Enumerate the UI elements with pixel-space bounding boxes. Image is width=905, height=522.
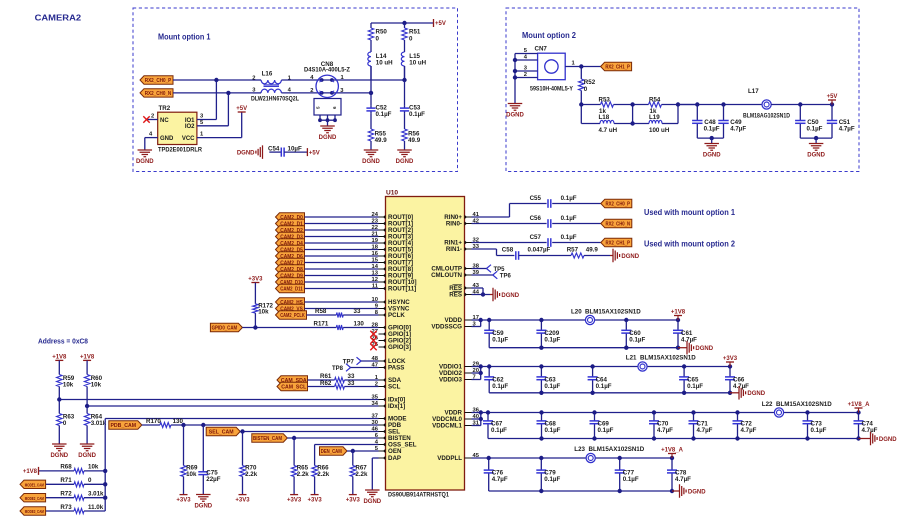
svg-text:DLW21HN670SQ2L: DLW21HN670SQ2L: [251, 96, 299, 103]
svg-text:L21: L21: [626, 355, 637, 362]
svg-text:DGND: DGND: [621, 254, 639, 260]
svg-text:DS90UB914ATRHSTQ1: DS90UB914ATRHSTQ1: [388, 492, 449, 499]
svg-text:BLM15AX102SN1D: BLM15AX102SN1D: [776, 401, 832, 408]
svg-text:DGND: DGND: [879, 437, 897, 443]
svg-text:4.7µF: 4.7µF: [839, 126, 855, 133]
svg-text:DGND: DGND: [319, 135, 337, 141]
svg-text:0: 0: [63, 420, 67, 427]
svg-text:VDDIO3: VDDIO3: [439, 377, 463, 384]
svg-text:+3V3: +3V3: [176, 498, 191, 504]
svg-text:C54: C54: [268, 146, 280, 153]
svg-text:NC: NC: [160, 118, 169, 124]
svg-text:DGND: DGND: [237, 150, 255, 156]
svg-text:ROUT[11]: ROUT[11]: [388, 286, 416, 293]
svg-text:2: 2: [151, 114, 154, 120]
svg-text:L19: L19: [649, 114, 660, 121]
svg-text:+1V8: +1V8: [671, 310, 686, 316]
svg-text:Address = 0xC8: Address = 0xC8: [38, 339, 88, 346]
svg-text:10k: 10k: [63, 382, 74, 389]
svg-text:MODE1_CAM: MODE1_CAM: [25, 482, 44, 487]
svg-text:+3V3: +3V3: [346, 498, 361, 504]
svg-text:33: 33: [348, 380, 355, 387]
svg-text:R73: R73: [60, 504, 72, 511]
svg-text:5: 5: [316, 106, 321, 109]
svg-text:CAMERA2: CAMERA2: [35, 12, 82, 22]
svg-text:RX2_CH0_P: RX2_CH0_P: [145, 78, 172, 84]
svg-text:0.1µF: 0.1µF: [492, 336, 508, 343]
svg-text:130: 130: [354, 321, 365, 328]
svg-text:DGND: DGND: [362, 159, 380, 165]
svg-text:L18: L18: [599, 114, 610, 121]
svg-text:49.9: 49.9: [375, 137, 388, 144]
svg-text:IDx[1]: IDx[1]: [388, 403, 405, 410]
svg-text:DGND: DGND: [688, 489, 706, 495]
svg-text:R71: R71: [60, 477, 72, 484]
svg-text:2.2k: 2.2k: [317, 471, 330, 478]
svg-text:0.1µF: 0.1µF: [807, 126, 823, 133]
svg-text:R68: R68: [60, 464, 72, 471]
svg-text:10k: 10k: [88, 464, 99, 471]
svg-text:2: 2: [524, 72, 527, 78]
svg-text:IO1: IO1: [185, 118, 195, 124]
svg-text:0.1µF: 0.1µF: [811, 427, 827, 434]
svg-text:DGND: DGND: [194, 504, 212, 510]
svg-text:0.1µF: 0.1µF: [623, 476, 639, 483]
svg-text:Used with mount option 2: Used with mount option 2: [644, 240, 736, 249]
svg-text:0.1µF: 0.1µF: [561, 215, 577, 222]
svg-text:3.01k: 3.01k: [91, 420, 107, 427]
svg-text:R58: R58: [315, 308, 327, 315]
svg-text:+5V: +5V: [435, 21, 446, 27]
svg-text:MODE3_CAM: MODE3_CAM: [25, 509, 44, 514]
svg-text:11.0k: 11.0k: [88, 504, 104, 511]
svg-text:49.9: 49.9: [586, 246, 599, 253]
svg-text:10k: 10k: [91, 382, 102, 389]
svg-text:DGND: DGND: [363, 499, 381, 505]
svg-text:DGND: DGND: [695, 346, 713, 352]
svg-text:+5V: +5V: [827, 94, 838, 100]
svg-text:R171: R171: [314, 321, 329, 328]
svg-text:L20: L20: [571, 309, 582, 316]
svg-text:L23: L23: [574, 446, 585, 453]
svg-text:DGND: DGND: [396, 159, 414, 165]
svg-text:RX2_CH0_N: RX2_CH0_N: [145, 91, 172, 97]
svg-text:U10: U10: [386, 190, 398, 197]
svg-text:L17: L17: [748, 88, 759, 95]
svg-text:100 uH: 100 uH: [649, 127, 670, 134]
svg-text:R52: R52: [584, 79, 596, 86]
svg-text:49.9: 49.9: [408, 137, 421, 144]
svg-text:C55: C55: [530, 195, 542, 202]
svg-text:+1V8_A: +1V8_A: [848, 402, 871, 408]
svg-text:DAP: DAP: [388, 455, 401, 462]
svg-text:10k: 10k: [186, 471, 197, 478]
svg-text:DGND: DGND: [506, 113, 524, 119]
svg-text:L22: L22: [762, 401, 773, 408]
svg-text:VDDCML1: VDDCML1: [432, 423, 462, 430]
svg-text:VCC: VCC: [182, 136, 195, 142]
svg-text:+1V8: +1V8: [52, 354, 67, 360]
svg-text:RX2_CH0_P: RX2_CH0_P: [606, 202, 631, 208]
svg-text:0: 0: [88, 477, 92, 484]
svg-text:3.01k: 3.01k: [88, 491, 104, 498]
svg-text:R57: R57: [567, 246, 579, 253]
svg-text:CAM_SCL: CAM_SCL: [281, 385, 307, 391]
svg-text:0.1µF: 0.1µF: [491, 427, 507, 434]
svg-text:DGND: DGND: [807, 153, 825, 159]
svg-text:0.1µF: 0.1µF: [629, 336, 645, 343]
svg-text:RIN0-: RIN0-: [446, 221, 462, 228]
svg-text:SEL_CAM: SEL_CAM: [209, 430, 234, 436]
svg-text:0.1µF: 0.1µF: [598, 427, 614, 434]
svg-text:R170: R170: [146, 418, 161, 425]
svg-text:0: 0: [376, 36, 380, 43]
svg-text:+5V: +5V: [309, 150, 320, 156]
svg-text:C56: C56: [530, 215, 542, 222]
svg-text:PASS: PASS: [388, 365, 404, 372]
svg-text:RES: RES: [449, 292, 462, 299]
svg-text:DGND: DGND: [747, 391, 765, 397]
svg-text:10µF: 10µF: [288, 146, 302, 153]
svg-text:4.7µF: 4.7µF: [657, 427, 673, 434]
svg-text:TPD2E001DRLR: TPD2E001DRLR: [158, 147, 202, 154]
svg-text:2.2k: 2.2k: [245, 471, 258, 478]
svg-text:TP7: TP7: [343, 359, 355, 365]
svg-text:RX2_CH1_P: RX2_CH1_P: [605, 65, 630, 71]
svg-text:R54: R54: [649, 96, 661, 103]
svg-text:PDB_CAM: PDB_CAM: [110, 423, 136, 429]
svg-text:MODE2_CAM: MODE2_CAM: [25, 496, 44, 501]
svg-text:4.7µF: 4.7µF: [697, 427, 713, 434]
svg-text:22µF: 22µF: [206, 476, 220, 483]
svg-text:DGND: DGND: [50, 453, 68, 459]
svg-text:+3V3: +3V3: [235, 498, 250, 504]
svg-text:+3V3: +3V3: [308, 498, 323, 504]
svg-text:BISTEN_CAM: BISTEN_CAM: [253, 436, 282, 442]
svg-text:2.2k: 2.2k: [355, 471, 368, 478]
svg-text:4.7 uH: 4.7 uH: [599, 127, 618, 134]
svg-text:DGND: DGND: [78, 453, 96, 459]
svg-text:RIN1-: RIN1-: [446, 246, 462, 253]
svg-text:4.7µF: 4.7µF: [675, 476, 691, 483]
svg-text:BLM15AX102SN1D: BLM15AX102SN1D: [585, 309, 641, 316]
svg-text:0.1µF: 0.1µF: [409, 111, 425, 118]
svg-text:0.1µF: 0.1µF: [544, 336, 560, 343]
svg-text:+3V3: +3V3: [248, 277, 263, 283]
svg-text:GPID0_CAM: GPID0_CAM: [212, 326, 238, 332]
svg-text:BLM15AX102SN1D: BLM15AX102SN1D: [589, 446, 645, 453]
svg-text:0.1µF: 0.1µF: [376, 111, 392, 118]
svg-text:CMLOUTN: CMLOUTN: [431, 272, 462, 279]
svg-text:4.7µF: 4.7µF: [681, 336, 697, 343]
svg-text:R53: R53: [599, 96, 611, 103]
svg-text:PCLK: PCLK: [388, 312, 405, 319]
svg-text:0.1µF: 0.1µF: [544, 383, 560, 390]
svg-text:6: 6: [332, 106, 337, 109]
svg-text:C58: C58: [502, 246, 514, 253]
svg-text:L16: L16: [262, 70, 273, 77]
svg-text:TP8: TP8: [332, 366, 344, 372]
svg-text:R50: R50: [376, 29, 388, 36]
svg-text:CAM2_D11: CAM2_D11: [280, 287, 303, 293]
svg-text:CN7: CN7: [535, 46, 548, 53]
svg-text:RX2_CH1_P: RX2_CH1_P: [606, 241, 631, 247]
svg-text:OEN: OEN: [388, 448, 402, 455]
svg-text:RX2_CH0_N: RX2_CH0_N: [606, 222, 631, 228]
svg-text:0.1µF: 0.1µF: [596, 383, 612, 390]
svg-text:VDDPLL: VDDPLL: [437, 455, 462, 462]
svg-text:TP6: TP6: [500, 274, 512, 280]
svg-text:2.2k: 2.2k: [297, 471, 310, 478]
svg-text:0.1µF: 0.1µF: [492, 383, 508, 390]
svg-text:VDDSSCG: VDDSSCG: [431, 324, 462, 331]
svg-text:DGND: DGND: [136, 159, 154, 165]
svg-text:Mount option 2: Mount option 2: [522, 31, 576, 40]
svg-text:TR2: TR2: [159, 105, 171, 112]
svg-text:BLM15AX102SN1D: BLM15AX102SN1D: [640, 355, 696, 362]
svg-text:C57: C57: [530, 234, 542, 241]
svg-text:DGND: DGND: [501, 293, 519, 299]
svg-text:0: 0: [584, 86, 588, 93]
svg-text:Mount option 1: Mount option 1: [158, 32, 211, 41]
svg-text:4.7µF: 4.7µF: [862, 427, 878, 434]
svg-text:33: 33: [354, 308, 361, 315]
svg-text:0.1µF: 0.1µF: [544, 476, 560, 483]
svg-text:R51: R51: [409, 29, 421, 36]
svg-text:DGND: DGND: [703, 153, 721, 159]
svg-text:0.047µF: 0.047µF: [528, 246, 551, 253]
svg-text:0.1µF: 0.1µF: [545, 427, 561, 434]
svg-text:0.1µF: 0.1µF: [561, 234, 577, 241]
svg-text:GND: GND: [160, 136, 174, 142]
svg-text:D4S10A-400L5-Z: D4S10A-400L5-Z: [304, 67, 350, 74]
svg-text:+1V8: +1V8: [23, 469, 38, 475]
svg-text:+3V3: +3V3: [723, 356, 738, 362]
svg-text:0.1µF: 0.1µF: [704, 126, 720, 133]
svg-text:IO2: IO2: [185, 124, 195, 130]
svg-text:SCL: SCL: [388, 384, 401, 391]
svg-text:+3V3: +3V3: [287, 498, 302, 504]
svg-text:BLM18AG102SN1D: BLM18AG102SN1D: [743, 113, 790, 120]
svg-text:CAM2_PCLK: CAM2_PCLK: [280, 313, 305, 319]
svg-text:+1V8: +1V8: [80, 354, 95, 360]
svg-text:4.7µF: 4.7µF: [492, 476, 508, 483]
svg-text:DEN_CAM: DEN_CAM: [321, 449, 342, 455]
svg-text:4.7µF: 4.7µF: [730, 126, 746, 133]
svg-text:4.7µF: 4.7µF: [741, 427, 757, 434]
svg-text:R72: R72: [60, 491, 72, 498]
svg-text:+5V: +5V: [236, 106, 247, 112]
svg-text:59S10H-40ML5-Y: 59S10H-40ML5-Y: [530, 86, 574, 93]
svg-text:+1V8_A: +1V8_A: [661, 448, 684, 454]
svg-text:0: 0: [409, 36, 413, 43]
svg-text:2: 2: [252, 75, 255, 81]
svg-text:10k: 10k: [258, 309, 269, 316]
svg-text:2: 2: [310, 88, 313, 94]
svg-text:GPIO[3]: GPIO[3]: [388, 344, 411, 351]
svg-text:10 uH: 10 uH: [409, 60, 426, 67]
svg-text:10 uH: 10 uH: [376, 60, 393, 67]
svg-text:0.1µF: 0.1µF: [687, 383, 703, 390]
svg-text:R62: R62: [320, 380, 332, 387]
svg-text:Used with mount option 1: Used with mount option 1: [644, 208, 736, 217]
svg-text:0.1µF: 0.1µF: [561, 195, 577, 202]
